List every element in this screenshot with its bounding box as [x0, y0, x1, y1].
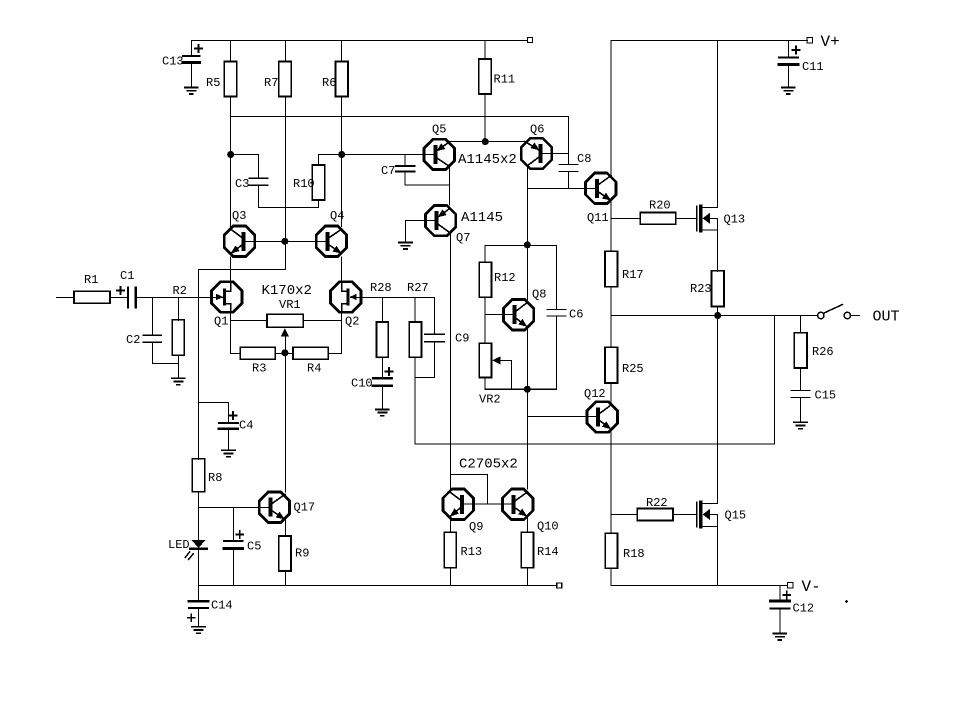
ground below R2 — [172, 378, 185, 384]
transistor Q5 — [424, 139, 454, 169]
ground below C14 — [192, 627, 205, 633]
transistor Q15 (MOSFET) — [697, 502, 718, 586]
svg-text:Q4: Q4 — [330, 209, 344, 223]
capacitor C4 — [199, 403, 238, 451]
wire Q9 collector stub — [449, 475, 451, 493]
node bias column bottom — [524, 386, 530, 392]
resistor R6 — [336, 40, 349, 226]
wire bias column down to Q10 collector — [526, 389, 528, 489]
capacitor C5 — [224, 507, 243, 585]
transistor Q9 — [443, 489, 512, 519]
resistor R4 — [285, 347, 328, 359]
ground below C12 — [773, 634, 786, 640]
wire output node run — [611, 315, 817, 317]
transistor Q4 — [285, 226, 346, 256]
stray dot mark — [845, 600, 848, 603]
svg-text:R23: R23 — [690, 282, 712, 296]
capacitor C8 — [559, 117, 578, 189]
wire Q7 emitter down to Q9 collector — [449, 233, 451, 475]
svg-text:R8: R8 — [208, 471, 222, 485]
resistor R3 — [240, 347, 285, 359]
wire output down to Q15 drain — [717, 316, 719, 503]
node V+ terminal — [807, 38, 813, 44]
ground below C13 — [185, 88, 198, 94]
resistor R7 — [279, 40, 292, 241]
node Q3 Q4 base junction — [282, 238, 288, 244]
transistor Q11 — [585, 173, 616, 203]
svg-text:V-: V- — [802, 578, 821, 596]
svg-text:C5: C5 — [247, 540, 261, 554]
svg-text:A1145x2: A1145x2 — [458, 152, 517, 168]
svg-text:C1: C1 — [120, 269, 134, 283]
resistor R9 — [279, 519, 291, 585]
svg-text:R13: R13 — [461, 545, 483, 559]
wire R8 node to Q17 base — [199, 506, 260, 508]
svg-text:Q7: Q7 — [456, 231, 470, 245]
resistor R1 — [74, 291, 110, 303]
transistor Q2 (JFET) — [331, 282, 362, 313]
svg-text:K170x2: K170x2 — [262, 283, 312, 299]
svg-text:A1145: A1145 — [461, 210, 503, 226]
capacitor C7 — [396, 155, 450, 186]
wire Q5 emitter down to Q7 — [449, 167, 451, 206]
resistor R2 — [172, 297, 184, 378]
transistor Q12 — [587, 402, 618, 432]
transistor Q17 — [259, 492, 289, 522]
svg-text:VR2: VR2 — [479, 393, 501, 407]
svg-text:C11: C11 — [802, 60, 824, 74]
capacitor C12 — [771, 586, 791, 634]
resistor R18 — [605, 533, 617, 585]
svg-text:OUT: OUT — [873, 309, 900, 326]
node C3 tap on R5 column — [228, 152, 234, 158]
node bias column top — [524, 242, 530, 248]
svg-text:R25: R25 — [622, 362, 644, 376]
wire Q7 base to ground — [406, 221, 426, 243]
wire Q5 collector to Q6 collector — [450, 141, 526, 143]
svg-text:C9: C9 — [455, 332, 469, 346]
svg-text:R26: R26 — [812, 345, 834, 359]
resistor R17 — [605, 251, 617, 315]
wire VR2 bottom run — [485, 388, 556, 390]
wire output lower run — [415, 443, 774, 445]
wire Q2 source to VR1 and R4 — [303, 312, 341, 353]
svg-text:R5: R5 — [206, 76, 220, 90]
capacitor C9 — [415, 334, 444, 377]
wire Q2 gate to feedback network — [361, 297, 434, 334]
svg-text:Q15: Q15 — [725, 509, 747, 523]
svg-text:C3: C3 — [235, 177, 249, 191]
svg-text:Q11: Q11 — [587, 211, 609, 225]
switch at output — [818, 305, 860, 319]
node V- terminal — [788, 583, 794, 589]
svg-text:Q9: Q9 — [469, 520, 483, 534]
transistor Q1 (JFET) — [211, 282, 242, 313]
svg-text:Q5: Q5 — [432, 123, 446, 137]
resistor R22 — [611, 509, 696, 521]
capacitor C6 — [547, 245, 566, 389]
capacitor C3 — [231, 155, 319, 208]
capacitor C2 — [143, 297, 178, 363]
svg-text:R27: R27 — [407, 281, 429, 295]
svg-text:C14: C14 — [211, 599, 233, 613]
svg-text:R12: R12 — [494, 271, 516, 285]
wire Q4 emitter to Q2 drain — [341, 257, 343, 283]
svg-text:C8: C8 — [577, 152, 591, 166]
transistor Q10 — [503, 489, 533, 519]
svg-text:V+: V+ — [821, 33, 840, 51]
ground at Q7 base — [399, 243, 412, 249]
potentiometer VR2 — [479, 343, 511, 389]
wire Q6 emitter column to Q8 — [526, 188, 528, 299]
ground below C15 — [794, 422, 807, 428]
svg-text:C12: C12 — [793, 602, 815, 616]
svg-text:R6: R6 — [322, 76, 336, 90]
node R23 output junction — [715, 313, 721, 319]
resistor R28 — [377, 297, 389, 378]
transistor Q7 — [425, 205, 456, 235]
svg-text:C7: C7 — [381, 164, 395, 178]
resistor R27 — [409, 297, 421, 444]
wire Q6 emitter to Q11 base — [527, 166, 585, 189]
resistor R8 — [192, 403, 204, 541]
svg-text:R17: R17 — [622, 268, 644, 282]
resistor R12 — [479, 245, 491, 343]
svg-text:R2: R2 — [173, 284, 187, 298]
wire Q11 collector to top rail — [610, 40, 612, 175]
wire Q12 emitter to R18 — [610, 429, 612, 533]
wire top rail right — [611, 39, 807, 41]
resistor R13 — [444, 517, 456, 586]
wire Q9 collector to base (diode connection) — [450, 475, 487, 504]
resistor R20 — [611, 213, 696, 225]
wire top rail left — [191, 40, 527, 56]
svg-text:Q6: Q6 — [530, 123, 544, 137]
wire C1 to Q1 gate — [136, 296, 212, 298]
resistor R11 — [479, 40, 492, 141]
capacitor C10 — [373, 368, 393, 409]
svg-text:R1: R1 — [84, 273, 98, 287]
svg-text:Q3: Q3 — [232, 209, 246, 223]
resistor R26 — [794, 316, 807, 391]
wire base node to bias column — [199, 241, 286, 402]
transistor Q13 (MOSFET) — [697, 40, 718, 271]
svg-text:R3: R3 — [252, 362, 266, 376]
svg-text:C4: C4 — [239, 419, 253, 433]
node R6 column on C7 wire — [339, 152, 345, 158]
svg-text:Q1: Q1 — [214, 315, 228, 329]
svg-text:C2705x2: C2705x2 — [459, 457, 518, 473]
svg-text:R22: R22 — [646, 496, 668, 510]
svg-text:Q17: Q17 — [294, 501, 316, 515]
resistor R25 — [605, 316, 617, 403]
svg-text:C2: C2 — [126, 333, 140, 347]
wire output to lower run — [773, 316, 775, 444]
svg-text:Q12: Q12 — [584, 387, 606, 401]
capacitor C15 — [791, 391, 810, 423]
svg-text:R7: R7 — [264, 76, 278, 90]
node top-left terminal — [528, 38, 533, 43]
svg-text:R20: R20 — [649, 199, 671, 213]
wire bottom rail right — [611, 585, 787, 587]
ground below C11 — [782, 88, 795, 94]
transistor Q3 — [224, 226, 285, 256]
wire R1 to C1 — [110, 296, 128, 298]
svg-text:R4: R4 — [307, 362, 321, 376]
node bottom-left terminal — [557, 583, 562, 588]
wire Q1 source to VR1 and R3 — [231, 312, 268, 353]
transistor Q8 — [485, 300, 534, 330]
wire Q8 emitter to node — [526, 327, 528, 389]
resistor R5 — [224, 40, 237, 226]
node R3 R4 wiper junction — [282, 350, 288, 356]
wire Q3 emitter to Q1 drain — [230, 257, 232, 283]
wire second rail — [231, 116, 569, 118]
svg-text:Q13: Q13 — [724, 213, 746, 227]
wire bottom rail left — [199, 585, 557, 587]
capacitor C1 — [117, 287, 136, 308]
wire Q12 base branch — [527, 416, 586, 418]
resistor R23 — [711, 271, 724, 316]
svg-text:R28: R28 — [370, 281, 392, 295]
svg-text:R14: R14 — [537, 545, 559, 559]
transistor Q6 — [521, 138, 568, 168]
svg-text:R11: R11 — [494, 73, 516, 87]
ground below C10 — [376, 409, 389, 415]
potentiometer VR1 — [267, 314, 303, 352]
capacitor C11 — [779, 40, 800, 87]
svg-text:R18: R18 — [623, 547, 645, 561]
svg-text:LED: LED — [168, 538, 190, 552]
ground below C4 — [222, 450, 235, 456]
node R11 bottom junction — [482, 139, 488, 145]
svg-text:Q10: Q10 — [537, 520, 559, 534]
svg-text:C15: C15 — [815, 389, 837, 403]
svg-text:R9: R9 — [295, 547, 309, 561]
svg-text:C10: C10 — [351, 377, 373, 391]
capacitor C14 — [188, 586, 208, 627]
resistor R10 — [312, 155, 424, 208]
wire Q11 emitter to R17 — [610, 201, 612, 252]
wire R12 C6 top run — [485, 244, 556, 246]
svg-text:R10: R10 — [293, 177, 315, 191]
capacitor C13 — [183, 45, 202, 88]
wire input lead — [56, 296, 74, 298]
svg-text:C13: C13 — [162, 55, 184, 69]
svg-text:Q2: Q2 — [345, 315, 359, 329]
diode LED — [185, 540, 206, 586]
svg-text:Q8: Q8 — [532, 288, 546, 302]
svg-text:C6: C6 — [569, 308, 583, 322]
wire wiper node down to Q17 collector — [284, 353, 286, 492]
resistor R14 — [521, 517, 533, 586]
svg-text:VR1: VR1 — [279, 298, 301, 312]
